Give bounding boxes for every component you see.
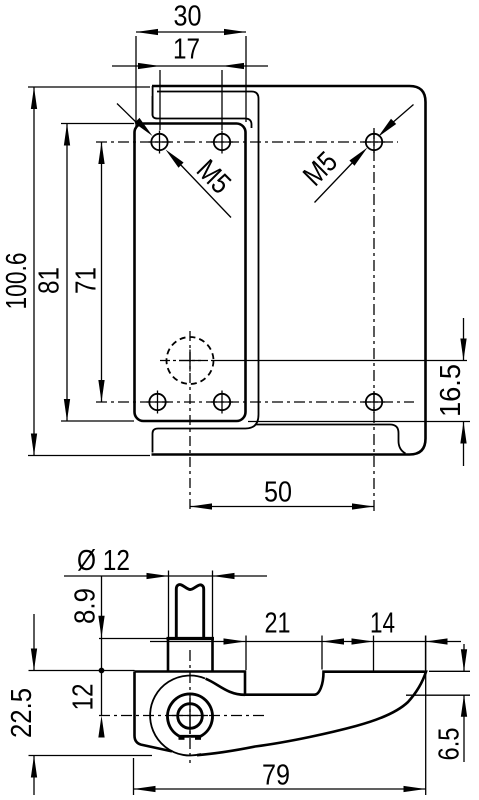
pin shaft with break line: [176, 585, 203, 638]
label M5 left leader: [117, 104, 140, 127]
dimension 8.9: [99, 638, 168, 640]
extension line 16.5 top: [214, 360, 467, 362]
svg-text:100.6: 100.6: [1, 253, 33, 310]
svg-text:79: 79: [262, 760, 290, 792]
svg-text:30: 30: [174, 1, 202, 33]
dimension 21 and 14: [245, 636, 247, 671]
svg-text:16.5: 16.5: [435, 364, 467, 417]
dimension 81: [61, 123, 134, 125]
lever fold line top and right and bottom: [153, 92, 259, 453]
dimension 17: [159, 70, 161, 130]
dimension 79: [133, 758, 135, 795]
extension line 50 right: [373, 412, 375, 511]
nut outline with flat: [168, 694, 213, 736]
svg-text:21: 21: [265, 608, 291, 640]
lever plate left edge top: [152, 86, 154, 116]
hole top-right M5: [366, 134, 382, 150]
hidden boss dashed circle: [167, 337, 214, 384]
centerline bottom holes: [96, 401, 414, 403]
latch body front rect: [135, 124, 246, 422]
inner circle: [178, 704, 203, 729]
dimension D12: [168, 571, 170, 638]
lever fold line bottom right: [256, 425, 406, 454]
pivot crosshair long dashes: [172, 715, 208, 717]
hub to arm S-curve: [206, 679, 246, 695]
svg-text:71: 71: [71, 267, 103, 294]
svg-text:81: 81: [34, 267, 66, 294]
dimension 100.6: [28, 86, 150, 88]
collar: [167, 637, 215, 640]
svg-text:17: 17: [173, 34, 200, 66]
lever inner shoulder line: [153, 96, 252, 128]
lever plate outline: [152, 86, 426, 455]
svg-text:50: 50: [264, 477, 292, 509]
pivot centerline horizontal: [99, 715, 266, 717]
hole top-mid M5: [214, 134, 230, 150]
dimension 30: [135, 36, 137, 129]
label M5 right leader: [391, 105, 414, 125]
centerline right holes vertical: [373, 128, 375, 412]
boss centerline horizontal: [160, 360, 214, 362]
dimension 71: [101, 142, 103, 402]
svg-text:Ø 12: Ø 12: [77, 545, 130, 577]
centerline top holes: [96, 141, 398, 143]
boss centerline vertical / extension 50 left: [189, 331, 191, 511]
hub circle: [150, 676, 205, 756]
hole bottom-right: [366, 394, 382, 410]
pivot centerline vertical: [189, 650, 191, 763]
svg-text:22.5: 22.5: [6, 688, 38, 738]
svg-text:6.5: 6.5: [434, 728, 466, 761]
dimension 22.5: [29, 670, 135, 672]
body and arm outline: [135, 672, 427, 756]
nut feet: [179, 735, 185, 740]
boss crosshair: [179, 360, 201, 362]
dimension 16.5: [248, 421, 470, 423]
svg-text:14: 14: [370, 608, 395, 640]
dimension 6.5: [429, 670, 470, 672]
svg-text:8.9: 8.9: [70, 588, 102, 624]
hole bottom-mid: [214, 394, 230, 410]
svg-text:12: 12: [68, 684, 100, 711]
body left edge: [135, 672, 173, 752]
hole top-left M5: [151, 134, 167, 150]
hole bottom-left: [149, 394, 165, 410]
dimension 12: [101, 671, 103, 716]
dimension 50: [190, 506, 374, 508]
centerline dash segments through holes: [149, 141, 171, 143]
